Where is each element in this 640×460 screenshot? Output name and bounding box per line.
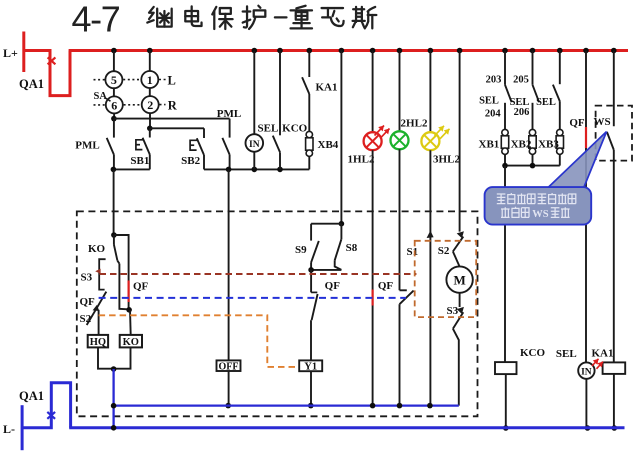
2HL2 label (401, 118, 428, 130)
KA1 to XB4 lead (308, 94, 310, 132)
title glyph dash (275, 13, 287, 21)
trip coil Y1 box (299, 360, 322, 371)
KO coil lower lead (114, 347, 131, 368)
svg-text:2HL2: 2HL2 (401, 118, 428, 130)
svg-text:205: 205 (513, 74, 529, 85)
XB2 lower lead (532, 154, 534, 165)
PML left contact lower lead (113, 155, 115, 170)
svg-text:Y1: Y1 (304, 362, 317, 373)
QF red mark on 1HL2 wire (372, 290, 374, 306)
svg-text:XB2: XB2 (511, 139, 532, 151)
QF contact lead (Y1 branch) (310, 270, 312, 293)
svg-text:KCO: KCO (520, 347, 546, 359)
link XB2 symbol (529, 129, 536, 154)
SEL column upper lead (253, 51, 255, 135)
dotted link left of 6 (94, 104, 105, 106)
dotted link 5 to 1 (123, 79, 140, 81)
PML left contact lead (113, 119, 115, 138)
QF contact blade on 2HL2 wire (400, 291, 414, 305)
S9 contact blade (311, 241, 319, 263)
SEL label col1 (479, 96, 499, 107)
XB1 lower lead (504, 154, 506, 165)
wire 204 to XB1 (504, 103, 506, 130)
junction on L+ bus x149 (147, 48, 153, 54)
SB1 contact blade (143, 138, 150, 155)
S9 lower lead (310, 262, 312, 270)
SEL label top (258, 123, 279, 135)
QF column wire (585, 51, 587, 363)
svg-text:KA1: KA1 (592, 347, 614, 359)
WS dashed enclosure (596, 106, 632, 161)
L- supply stub (21, 405, 24, 450)
svg-text:KA1: KA1 (316, 82, 338, 94)
callout balloon body (485, 187, 592, 225)
SA contact circle 6 (106, 96, 123, 113)
SEL IN lower lead (253, 152, 255, 170)
lamp 3HL2 upper lead (429, 51, 431, 133)
KO contact blade (114, 245, 118, 261)
brown link arrowhead (95, 269, 100, 274)
wire 206 to XB2 (532, 103, 534, 130)
svg-text:QA1: QA1 (19, 389, 44, 403)
svg-text:OFF: OFF (219, 361, 239, 372)
svg-text:QF: QF (378, 280, 394, 292)
SEL contact blade 205 (533, 85, 540, 102)
breaker QA1 bottom jog wire (21, 383, 71, 428)
blue drop wire from coils (112, 369, 114, 428)
wire S2 to HQ coil (98, 310, 100, 335)
link XB4 body (306, 138, 313, 150)
SB1 button actuator (136, 140, 143, 150)
QA1 label (top breaker) (19, 77, 44, 91)
svg-text:WS: WS (532, 209, 549, 220)
S8 contact blade (335, 239, 342, 260)
SB2 lower lead (203, 155, 205, 169)
L- label (3, 422, 15, 436)
control-circuit dashed box (77, 211, 478, 416)
link XB4 top circle (306, 131, 312, 137)
SA contact circle 2 (142, 96, 159, 113)
KCO coil box (495, 362, 517, 374)
KCO coil label (520, 347, 546, 359)
HQ coil text (90, 337, 106, 348)
link XB1 symbol (501, 129, 508, 154)
dotted link left of 5 (94, 79, 105, 81)
svg-text:QA1: QA1 (19, 77, 44, 91)
S3 contact blade (453, 312, 463, 328)
svg-text:6: 6 (111, 98, 117, 112)
svg-text:WS: WS (593, 116, 610, 128)
SEL label col3 (536, 97, 556, 108)
wire XB join rail (505, 165, 560, 167)
node G junction (339, 221, 345, 227)
wire node G to S9 (311, 223, 341, 225)
svg-text:5: 5 (111, 73, 117, 87)
QF label on 1HL2 wire (378, 280, 394, 292)
node C junction (111, 167, 117, 173)
node I junction (308, 403, 314, 409)
KA1 coil lower lead (613, 374, 615, 428)
KO contact jog (117, 261, 119, 264)
S2 arrow tip (93, 305, 100, 311)
KA1 contact upper lead (308, 51, 310, 78)
L+ label (3, 46, 18, 60)
node F junction (277, 167, 283, 173)
KA1 coil label (592, 347, 614, 359)
svg-text:M: M (453, 273, 465, 288)
title glyph dian (185, 6, 201, 26)
svg-text:KO: KO (88, 243, 106, 255)
WS contact blade (607, 132, 614, 150)
SB1 lower lead (149, 155, 151, 170)
KA1 contact blade (302, 77, 309, 94)
svg-text:S2: S2 (80, 313, 92, 325)
QF label top right (569, 117, 585, 129)
XB4 label (318, 139, 339, 151)
svg-text:3HL2: 3HL2 (433, 154, 460, 166)
title glyph hu (243, 6, 266, 29)
wire bus to 203 contact (504, 51, 506, 85)
KA1 contact label (316, 82, 338, 94)
PML left contact blade (107, 138, 114, 155)
PML label right (217, 108, 241, 120)
wire node M to KO coil (129, 310, 132, 335)
HQ coil box (88, 335, 108, 348)
node on L- bus below SEL IN (585, 425, 591, 431)
S1 label (407, 246, 419, 258)
QF label (Y1 branch) (325, 280, 341, 292)
node E junction (252, 167, 258, 173)
lamp 2HL2 upper lead (399, 51, 401, 132)
title text 4-7 (72, 0, 120, 40)
wire SB1 bottom to node C (113, 168, 149, 170)
svg-text:QF: QF (569, 117, 585, 129)
wire KO contact down (119, 264, 129, 310)
S2 switch arrow (457, 231, 464, 238)
OFF coil box (217, 360, 241, 371)
svg-text:1: 1 (147, 73, 153, 87)
junction on L+ bus x309 (307, 48, 313, 54)
wire SEL3 to XB3 (559, 101, 561, 129)
junction on L+ bus x399 (397, 48, 403, 54)
svg-text:KCO: KCO (282, 123, 308, 135)
node T junction (111, 425, 117, 431)
node L junction (111, 232, 117, 238)
svg-text:HQ: HQ (90, 337, 106, 348)
KCO lower lead (279, 152, 281, 169)
SEL contact blade col3 (553, 85, 560, 102)
blue dashed QF link (99, 297, 406, 299)
HQ coil lower lead (98, 347, 114, 368)
title glyph si (353, 7, 377, 28)
KCO label top (282, 123, 308, 135)
L terminal label (168, 73, 176, 87)
S3 label (81, 272, 93, 284)
junction on L+ bus x459 (457, 48, 463, 54)
motor M letter (453, 273, 465, 288)
wire 1 to 2 (149, 88, 151, 96)
KCO coil lower lead (505, 374, 507, 428)
QF contact blade (HQ branch) (96, 292, 106, 309)
QA1 label (bottom breaker) (19, 389, 44, 403)
title glyph wa (322, 8, 344, 26)
wire 2 down to node B (149, 113, 151, 128)
SA label (94, 91, 108, 102)
SEL IN relay circle bottom (578, 362, 594, 378)
svg-text:SEL: SEL (536, 97, 556, 108)
SEL contact blade 203 (505, 85, 512, 102)
SB2 upper lead (203, 128, 205, 138)
L- bus wire (69, 426, 624, 429)
svg-text:SA: SA (94, 91, 108, 102)
wire parallel QF branch (114, 235, 129, 309)
KO contact label (88, 243, 106, 255)
SB1 upper lead (149, 128, 151, 137)
svg-text:1HL2: 1HL2 (348, 154, 375, 166)
QF label on KO branch (133, 281, 149, 293)
node Q junction (370, 403, 376, 409)
svg-text:L+: L+ (3, 46, 18, 60)
svg-text:PML: PML (75, 140, 99, 152)
dotted link 6 to 2 (124, 104, 141, 106)
SA contact circle 5 (105, 71, 122, 88)
S8 label (346, 242, 358, 254)
svg-text:IN: IN (581, 367, 592, 377)
PML right contact blade (222, 138, 229, 155)
svg-text:XB4: XB4 (318, 139, 339, 151)
breaker QA1 top cross mark (48, 57, 56, 64)
svg-text:204: 204 (485, 108, 502, 119)
lamp 3HL2 lower wire / S1 column (429, 150, 431, 405)
WS contact upper lead (613, 51, 615, 127)
svg-text:SB2: SB2 (181, 155, 200, 167)
PML label left (75, 140, 99, 152)
breaker QA1 bottom cross mark (47, 412, 55, 419)
node M junction (126, 307, 132, 313)
lamp 1HL2 upper lead (372, 51, 374, 133)
205 terminal label (513, 74, 529, 85)
KA1 red arrows (592, 359, 603, 369)
lamp 3HL2 (yellow) (421, 132, 439, 150)
S2 contact blade (453, 237, 463, 252)
wire M to S3 (459, 293, 461, 307)
svg-text:4-7: 4-7 (72, 0, 120, 40)
svg-text:XB1: XB1 (479, 139, 500, 151)
lamp 3HL2 arrows (435, 126, 450, 139)
node A junction (111, 116, 117, 122)
title glyph bao (212, 7, 232, 29)
wire S2 to motor M (453, 252, 460, 267)
QF contact blade (Y1 branch) (312, 294, 318, 320)
R terminal label (168, 98, 178, 112)
svg-text:XB3: XB3 (538, 139, 559, 151)
1HL2 label (348, 154, 375, 166)
wire bus to contact 1 (149, 51, 151, 72)
SB2 contact blade (197, 138, 204, 155)
orange dashed box around S1 S2 M S3 (415, 241, 477, 317)
svg-text:QF: QF (325, 280, 341, 292)
svg-text:S3: S3 (447, 305, 459, 317)
OFF column wire (228, 169, 230, 360)
SA leader line (105, 98, 111, 102)
wire node B to SB2 branch (150, 127, 204, 129)
dotted link right of 1 (159, 79, 166, 81)
node D junction (226, 167, 232, 173)
junction on L+ bus x372 (370, 48, 376, 54)
lamp 2HL2 mid wire (399, 149, 401, 290)
PML right lower lead (229, 155, 231, 170)
svg-text:S9: S9 (295, 244, 307, 256)
OFF lower lead (228, 371, 230, 406)
S2-M column upper lead (459, 51, 461, 232)
S9 upper lead (310, 224, 312, 241)
junction on L+ bus x505 (502, 48, 508, 54)
KO coil box (120, 335, 142, 348)
callout text line2 故障时WS接通 (501, 207, 570, 220)
node O junction (225, 403, 231, 409)
S1 switch arrow (427, 231, 434, 239)
OFF label (219, 361, 239, 372)
206 terminal label (514, 107, 530, 118)
svg-text:PML: PML (217, 108, 241, 120)
lamp 1HL2 arrows (375, 126, 390, 139)
brown dashed mechanical link (100, 273, 417, 275)
WS label (593, 116, 610, 128)
SB2 button actuator (190, 140, 197, 150)
motor M circle (446, 266, 472, 292)
junction on L+ bus x280 (277, 48, 283, 54)
svg-text:206: 206 (514, 107, 530, 118)
PML right contact lead (229, 119, 231, 138)
KCO column upper lead (279, 51, 281, 136)
junction on L+ bus x559 (557, 48, 563, 54)
wire S9-S8 join rail (311, 269, 341, 271)
KCO contact blade (273, 136, 280, 153)
wire SB2-PML-SEL-KCO-XB4 bottom rail (204, 168, 309, 170)
SEL label col2 (510, 97, 530, 108)
SEL IN lower lead (585, 379, 587, 428)
XB2 label (511, 139, 532, 151)
SEL IN instrument circle (246, 134, 264, 152)
svg-text:IN: IN (249, 140, 260, 150)
svg-text:KO: KO (123, 337, 139, 348)
wire 6 to node A (113, 113, 115, 119)
node R junction (397, 403, 403, 409)
node N junction (111, 366, 117, 372)
lamp 1HL2 (red) (364, 132, 382, 150)
svg-text:S2: S2 (438, 245, 450, 257)
svg-text:L: L (168, 73, 176, 87)
L+ bus wire (69, 49, 628, 52)
203 terminal label (486, 74, 502, 85)
junction on L+ bus x532 (530, 48, 536, 54)
svg-text:203: 203 (486, 74, 502, 85)
svg-text:SEL: SEL (258, 123, 279, 135)
S9 label (295, 244, 307, 256)
node on L- bus below KCO (503, 425, 509, 431)
wire XB rail to KCO coil (504, 166, 506, 363)
S2 label (80, 313, 92, 325)
node on L- bus below KA1 (612, 425, 618, 431)
Y1 lower lead (310, 371, 312, 405)
junction on L+ bus x254 (252, 48, 258, 54)
svg-text:S1: S1 (407, 246, 419, 258)
wire QF to Y1 coil (310, 320, 312, 360)
SA contact circle 1 (141, 71, 158, 88)
204 terminal label (485, 108, 502, 119)
svg-text:R: R (168, 98, 178, 112)
svg-text:QF: QF (80, 296, 96, 308)
SEL column3 upper lead (559, 51, 561, 85)
svg-text:L-: L- (3, 422, 15, 436)
S2 label right (438, 245, 450, 257)
S2 contact blade (open) (87, 309, 97, 325)
junction on L+ bus x613 (611, 48, 617, 54)
svg-text:QF: QF (133, 281, 149, 293)
lamp 2HL2 lower wire (399, 304, 401, 405)
node S junction (427, 403, 433, 409)
svg-text:SEL: SEL (556, 348, 577, 360)
node B junction (147, 126, 153, 132)
junction on L+ bus x341 (339, 48, 345, 54)
QF fixed tick (Y1 branch) (311, 291, 317, 293)
breaker QA1 top jog wire (23, 51, 70, 96)
wire node C down to node L (113, 169, 115, 235)
svg-text:SB1: SB1 (130, 155, 149, 167)
QF contact jog on 2HL2 wire (400, 289, 407, 291)
S8 blade return wire (335, 260, 342, 270)
junction on L+ bus x430 (428, 48, 434, 54)
title glyph zhong (291, 6, 312, 29)
XB3 label (538, 139, 559, 151)
KO coil text (123, 337, 139, 348)
orange dashed link to Y1 (99, 315, 299, 367)
KA1 coil box (603, 362, 626, 374)
KO contact lead (113, 235, 115, 245)
S3 lower lead (453, 329, 459, 406)
link XB3 symbol (556, 129, 563, 154)
XB3 lower lead (559, 154, 561, 165)
wire bus to 205 contact (532, 51, 534, 85)
3HL2 label (433, 154, 460, 166)
junction on L+ bus x586 (583, 48, 589, 54)
wire node A to PML right branch (114, 118, 230, 120)
lamp 1HL2 lower wire (372, 150, 374, 405)
callout tail (546, 132, 607, 191)
node P junction (111, 403, 117, 409)
QF label (HQ branch) (80, 296, 96, 308)
dotted link right of 2 (160, 104, 166, 106)
node J junction (502, 163, 508, 169)
S9-S8 column upper lead (340, 51, 342, 224)
svg-text:SEL: SEL (479, 96, 499, 107)
node K junction (530, 163, 536, 169)
S3 label right (447, 305, 459, 317)
svg-text:2: 2 (147, 98, 153, 112)
SEL label bottom (556, 348, 577, 360)
svg-text:S8: S8 (346, 242, 358, 254)
S3 bracket actuator (99, 259, 105, 289)
SB1 label (130, 155, 149, 167)
S3 switch arrow (457, 307, 464, 314)
wire bus to contact 5 (113, 51, 115, 72)
inner blue rail (114, 404, 459, 406)
SB2 label (181, 155, 200, 167)
Y1 label (304, 362, 317, 373)
svg-text:S3: S3 (81, 272, 93, 284)
QF red mark on KO branch (128, 281, 130, 303)
node H junction (308, 267, 314, 273)
